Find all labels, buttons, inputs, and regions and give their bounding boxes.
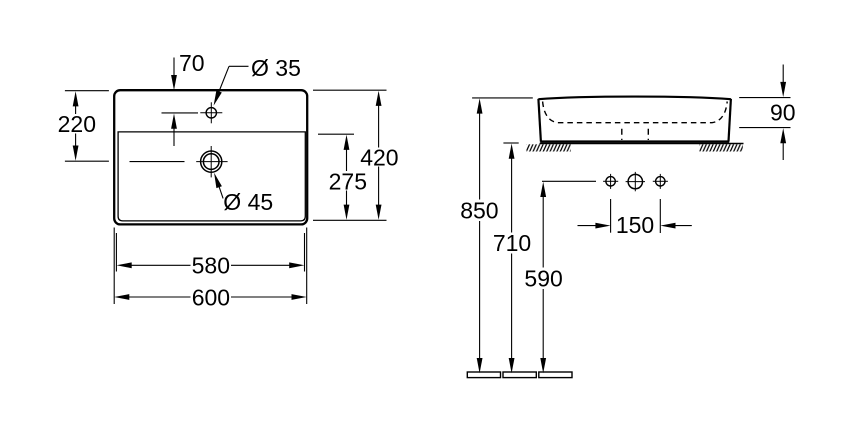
svg-text:850: 850 — [460, 198, 498, 224]
svg-text:710: 710 — [493, 230, 531, 256]
svg-text:Ø 45: Ø 45 — [223, 189, 273, 215]
svg-text:600: 600 — [192, 285, 230, 311]
svg-text:90: 90 — [770, 100, 796, 126]
svg-text:70: 70 — [179, 50, 205, 76]
svg-text:Ø 35: Ø 35 — [251, 55, 301, 81]
svg-text:420: 420 — [360, 145, 398, 171]
svg-text:590: 590 — [524, 265, 562, 291]
svg-text:220: 220 — [58, 111, 96, 137]
svg-text:275: 275 — [329, 168, 367, 194]
svg-text:580: 580 — [192, 253, 230, 279]
svg-text:150: 150 — [616, 212, 654, 238]
